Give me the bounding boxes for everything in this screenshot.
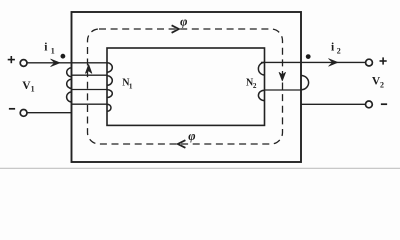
- svg-text:1: 1: [129, 82, 133, 90]
- svg-text:2: 2: [337, 47, 341, 56]
- svg-text:1: 1: [51, 46, 55, 55]
- svg-text:φ: φ: [180, 14, 187, 28]
- svg-text:1: 1: [31, 85, 35, 94]
- svg-text:2: 2: [253, 82, 257, 90]
- svg-text:φ: φ: [188, 129, 195, 143]
- svg-text:2: 2: [380, 81, 384, 90]
